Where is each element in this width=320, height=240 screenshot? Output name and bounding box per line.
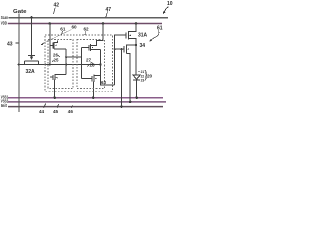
transistor 34 channel (126, 45, 128, 54)
transistor 27 channel (90, 44, 92, 51)
inverter dashed box 62 (77, 40, 105, 89)
transistor 34 gate bar (123, 46, 125, 52)
leader 26 tick (58, 55, 60, 56)
leader 47 (106, 12, 108, 18)
transistor 28 gate lead (81, 78, 92, 80)
svg-text:63: 63 (101, 80, 107, 85)
svg-text:Gate: Gate (13, 9, 27, 15)
transistor 26 arrow (55, 45, 57, 46)
transistor 25 source lead to VSS1 (54, 80, 57, 98)
svg-text:VDD: VDD (1, 21, 7, 26)
node junction VSS1/28 (92, 96, 95, 99)
node junction riser/34 gate lead (114, 48, 116, 50)
svg-text:60: 60 (72, 25, 78, 30)
svg-text:Init: Init (1, 103, 8, 108)
svg-text:61: 61 (157, 26, 163, 32)
transistor 32A gate arrow (31, 56, 33, 59)
leader 61 box tick (62, 31, 63, 35)
svg-text:Scan: Scan (1, 15, 9, 20)
leader 61 arrow (151, 31, 159, 41)
wire right inverter gate lead top (81, 47, 89, 49)
node junction VSS1/25 (53, 96, 56, 99)
transistor 32A right stub (38, 61, 40, 65)
svg-text:20: 20 (147, 74, 153, 79)
svg-text:42: 42 (54, 3, 60, 9)
svg-text:62: 62 (84, 27, 90, 32)
OLED 20 anode triangle (133, 75, 141, 80)
transistor 32A channel (25, 60, 39, 62)
leader 45 tick (57, 104, 59, 108)
transistor 32A gate bar (28, 55, 35, 57)
wire VDD drop to right inverter (91, 24, 103, 46)
svg-text:10: 10 (167, 1, 173, 7)
wire Init drop (120, 48, 122, 50)
leader 25 tick (52, 60, 53, 62)
svg-text:61: 61 (60, 26, 66, 31)
wire Gate vertical line (18, 14, 20, 113)
node junction VDD/31A drain (135, 22, 138, 25)
transistor 25 gate lead (50, 76, 53, 78)
transistor 27 gate bar (88, 45, 90, 51)
node junction VDD/right inverter (102, 22, 105, 25)
node junction VDD/left inverter (49, 22, 52, 25)
leader 23 tick (139, 79, 140, 81)
transistor 26 gate bar (52, 43, 54, 49)
transistor 31A drain lead to VDD (128, 24, 136, 32)
leader 43 (16, 42, 19, 44)
svg-text:47: 47 (106, 7, 112, 13)
transistor 34 source lead to VSS2 (127, 54, 131, 102)
wire 34 gate lead (115, 48, 124, 50)
transistor 28 gate bar (91, 76, 93, 82)
inverter dashed box 61 (48, 40, 73, 89)
transistor 25 gate bar (52, 75, 54, 80)
svg-text:32A: 32A (26, 69, 36, 75)
transistor 27 arrow (91, 47, 93, 48)
svg-text:25: 25 (54, 57, 59, 62)
svg-text:44: 44 (39, 109, 45, 114)
leader 62 box tick (84, 32, 87, 35)
node junction 31A source/34 drain (135, 44, 137, 46)
leader 60 arrow (43, 30, 72, 44)
svg-text:45: 45 (53, 109, 59, 114)
wire VDD rail (8, 23, 162, 25)
svg-text:31A: 31A (138, 33, 148, 39)
transistor 25 channel (54, 74, 56, 80)
wire VDD drop to left inverter (49, 24, 51, 65)
transistor 31A source lead (128, 39, 136, 45)
transistor 25 arrow (56, 77, 58, 78)
transistor 28 source lead to VSS1 (92, 82, 95, 98)
transistor 26 channel (53, 42, 55, 49)
node junction Gate/node A (18, 63, 20, 65)
OLED 20 cathode bar (133, 79, 140, 81)
transistor 32A gate column (31, 18, 33, 56)
wire node A riser to 31A gate (115, 35, 126, 85)
wire right inverter input column (80, 48, 82, 79)
brace 20 (145, 70, 147, 80)
node junction node A / right output column (99, 63, 101, 65)
transistor 28 arrow (95, 78, 97, 79)
leader 44 tick (44, 103, 46, 107)
svg-text:46: 46 (68, 109, 74, 114)
wire right output column (101, 50, 115, 86)
transistor 25 drain lead (55, 74, 66, 76)
wire cross-coupling tap (66, 56, 81, 58)
transistor 32A left stub (24, 61, 26, 65)
wire OLED anode (135, 45, 137, 75)
node junction at outer box edge (44, 63, 46, 65)
outer dashed box 60 (45, 35, 113, 91)
transistor 34 drain lead (127, 44, 137, 46)
wire left output column (65, 49, 67, 75)
node junction Init drop (120, 105, 123, 108)
node junction VSS2/34 (129, 101, 132, 104)
leader 42 (54, 8, 56, 15)
transistor 31A gate bar (125, 32, 127, 38)
transistor 28 drain lead (94, 74, 101, 76)
wire Init rail (8, 106, 163, 108)
transistor 26 drain step (54, 40, 57, 42)
node junction node A / left input column (49, 63, 51, 65)
transistor 31A arrow (129, 35, 131, 36)
leader 21 tick (138, 71, 140, 73)
leader 46 tick (71, 105, 72, 108)
leader 27 tick (91, 62, 94, 64)
node junction VSS1/OLED (135, 96, 138, 99)
svg-text:23: 23 (141, 77, 145, 82)
wire Scan rail (9, 17, 169, 19)
wire VSS2 rail (8, 101, 166, 103)
svg-text:43: 43 (7, 42, 13, 48)
leader 28 tick (87, 65, 89, 67)
transistor 26 drain lead (54, 48, 66, 50)
node junction node A / left output column (65, 63, 67, 65)
node junction output/tap (65, 56, 67, 58)
wire node A horizontal (19, 64, 101, 66)
transistor 27 drain lead (91, 49, 101, 51)
wire OLED cathode to VSS1 (136, 80, 138, 97)
wire left inverter gate lead top (50, 45, 53, 47)
transistor 28 channel (93, 75, 95, 82)
leader 22 tick (139, 75, 140, 77)
transistor 34 arrow (127, 48, 129, 49)
node junction Scan/32A gate (30, 16, 33, 19)
transistor 31A channel (127, 31, 129, 40)
wire VSS1 rail (8, 97, 163, 99)
leader 10 arrow (164, 7, 168, 12)
svg-text:34: 34 (140, 43, 146, 49)
